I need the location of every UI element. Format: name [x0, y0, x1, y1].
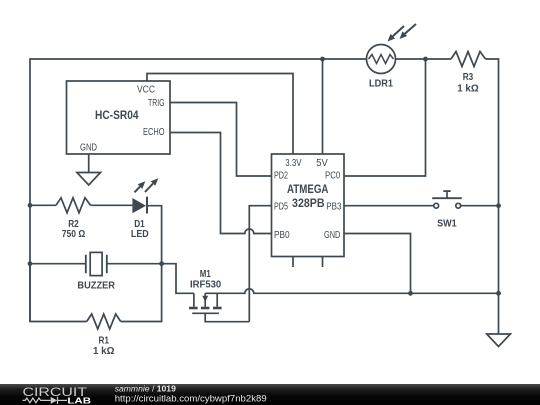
junction: source rail / right rail — [496, 291, 501, 296]
wire: M1 gate to PD5 riser — [205, 313, 249, 321]
junction: left rail / R2 branch — [28, 203, 33, 208]
wire: ATMEGA GND down to source rail — [344, 234, 411, 294]
LED D1 — [131, 178, 158, 240]
resistor R1 1 kΩ — [87, 314, 121, 357]
wire: ATMEGA PB3 to SW1 — [344, 205, 434, 207]
IC HC-SR04 ultrasonic sensor box — [67, 81, 171, 154]
ground symbol bottom right — [487, 334, 511, 347]
svg-text:sammnie / 1019: sammnie / 1019 — [115, 383, 176, 393]
wire: top rail R3 to right rail corner — [486, 59, 499, 334]
resistor R3 1 kΩ — [451, 52, 486, 95]
svg-text:PD5: PD5 — [274, 202, 288, 213]
wire: PD5 riser up to ATMEGA PD5 — [249, 206, 271, 322]
svg-text:PB3: PB3 — [326, 202, 342, 213]
logo CircuitLab — [23, 383, 267, 405]
photoresistor LDR1 — [367, 24, 417, 90]
svg-text:3.3V: 3.3V — [285, 158, 301, 169]
svg-text:GND: GND — [80, 143, 97, 154]
svg-text:LDR1: LDR1 — [369, 78, 393, 90]
wire: R1 to right branch rail up — [121, 264, 162, 322]
wire: D1 cathode to right branch rail — [147, 206, 162, 264]
svg-text:ATMEGA: ATMEGA — [287, 184, 329, 196]
wire: ATMEGA PC0 to LDR/R3 node — [344, 59, 426, 176]
svg-text:PB0: PB0 — [274, 230, 290, 241]
wire: HC-SR04 ECHO to ATMEGA PB0 (with hop) — [170, 133, 272, 234]
svg-text:GND: GND — [324, 230, 340, 241]
svg-text:IRF530: IRF530 — [190, 279, 221, 291]
junction: GND wire / source rail — [408, 291, 413, 296]
junction: buzzer right / LED / R1 / drain feed — [159, 261, 164, 266]
svg-text:LAB: LAB — [67, 395, 91, 405]
svg-text:328PB: 328PB — [292, 198, 325, 210]
svg-text:TRIG: TRIG — [148, 98, 165, 109]
junction: PC0 / top rail — [423, 57, 428, 62]
wire: top rail LDR1 to R3 — [396, 58, 452, 60]
wire: SW1 to right rail — [461, 205, 499, 207]
wire: left rail down to R1 — [30, 264, 87, 322]
svg-text:SW1: SW1 — [437, 217, 457, 229]
svg-text:R3: R3 — [463, 71, 474, 83]
wire: branch rail to M1 drain — [162, 264, 194, 294]
wire: left rail to buzzer — [30, 263, 86, 265]
wire: HC-SR04 TRIG to ATMEGA PD2 — [170, 103, 272, 177]
ground symbol below HC-SR04 — [77, 173, 101, 186]
transistor M1 IRF530 (NMOS) — [189, 268, 222, 313]
switch SW1 pushbutton — [432, 191, 462, 229]
junction: 5V / top rail — [320, 57, 325, 62]
svg-text:5V: 5V — [316, 158, 328, 169]
wire: HC-SR04 GND down to ground — [88, 154, 90, 173]
wire: HC-SR04 VCC to ATMEGA 3.3V — [147, 74, 293, 155]
svg-text:BUZZER: BUZZER — [77, 280, 115, 292]
buzzer BUZZER (piezo) — [77, 252, 115, 291]
svg-text:1 kΩ: 1 kΩ — [93, 345, 115, 357]
svg-text:ECHO: ECHO — [143, 127, 165, 138]
IC ATMEGA 328PB microcontroller box — [272, 154, 345, 257]
junction: left rail / buzzer — [28, 261, 33, 266]
svg-text:LED: LED — [131, 228, 149, 240]
svg-text:VCC: VCC — [137, 85, 155, 96]
pin stub: ATMEGA bottom pin 1 — [292, 257, 294, 268]
wire: top rail left segment (5V rail from left loop to LDR1) — [30, 59, 367, 322]
wire: ATMEGA 5V up to top rail — [322, 59, 324, 154]
svg-text:1 kΩ: 1 kΩ — [457, 83, 479, 95]
pin stub: ATMEGA bottom pin 2 — [322, 257, 324, 268]
svg-text:HC-SR04: HC-SR04 — [95, 110, 139, 122]
wire: M1 source rail to right rail (with hop) — [205, 289, 498, 294]
svg-text:750 Ω: 750 Ω — [62, 228, 86, 240]
wire: R2 to D1 anode — [91, 204, 133, 206]
resistor R2 750 Ω — [56, 198, 91, 240]
junction: SW1 / right rail — [496, 203, 501, 208]
wire: left rail to R2 — [30, 204, 56, 206]
svg-text:PD2: PD2 — [274, 171, 288, 182]
svg-text:http://circuitlab.com/cybwpf7n: http://circuitlab.com/cybwpf7nb2k89 — [115, 394, 267, 405]
svg-text:PC0: PC0 — [325, 171, 341, 182]
wire: buzzer to right branch rail — [107, 263, 162, 265]
